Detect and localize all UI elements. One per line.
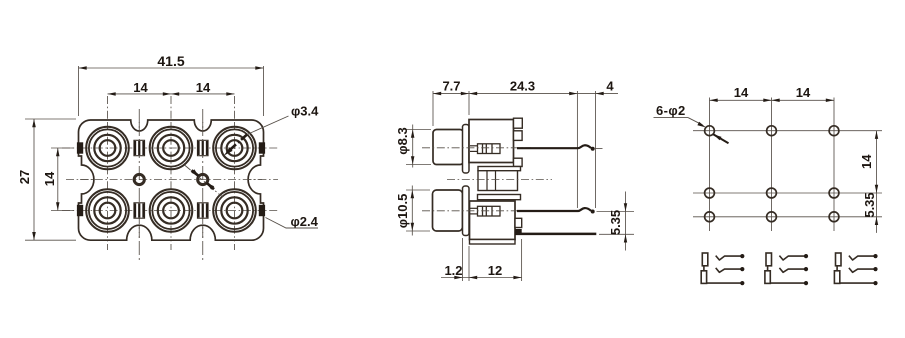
svg-text:4: 4 — [606, 78, 614, 93]
svg-text:14: 14 — [133, 80, 148, 95]
svg-text:φ8.3: φ8.3 — [395, 127, 410, 154]
svg-text:27: 27 — [17, 170, 32, 184]
svg-text:5.35: 5.35 — [862, 192, 877, 217]
svg-text:φ10.5: φ10.5 — [395, 194, 410, 229]
svg-text:6-φ2: 6-φ2 — [656, 103, 686, 118]
svg-text:41.5: 41.5 — [157, 53, 184, 69]
svg-text:1.2: 1.2 — [444, 263, 462, 278]
svg-text:14: 14 — [734, 85, 749, 100]
svg-text:24.3: 24.3 — [510, 78, 535, 93]
svg-text:7.7: 7.7 — [442, 78, 460, 93]
svg-text:14: 14 — [196, 80, 211, 95]
svg-text:φ3.4: φ3.4 — [291, 103, 319, 118]
svg-text:φ2.4: φ2.4 — [291, 214, 319, 229]
svg-text:14: 14 — [796, 85, 811, 100]
svg-text:14: 14 — [42, 171, 57, 186]
svg-text:12: 12 — [488, 263, 502, 278]
svg-text:5.35: 5.35 — [608, 210, 623, 235]
svg-text:14: 14 — [859, 154, 874, 169]
